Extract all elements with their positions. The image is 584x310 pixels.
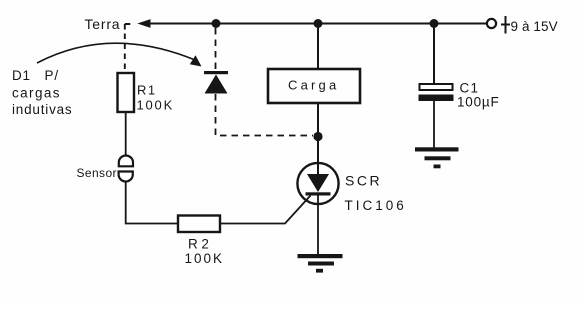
label +9 a 15V: [501, 16, 558, 34]
wire R2 to SCR gate: [220, 196, 311, 224]
svg-text:TIC106: TIC106: [345, 198, 407, 213]
C1 bottom plate: [419, 95, 454, 102]
svg-text:9 à 15V: 9 à 15V: [511, 19, 558, 34]
wire SCR cathode to ground: [317, 195, 319, 255]
svg-text:indutivas: indutivas: [12, 102, 72, 117]
node junction dot D1 branch: [212, 19, 221, 28]
svg-text:Terra: Terra: [85, 16, 121, 32]
label R1 value: [137, 83, 175, 113]
ground under C1: [415, 147, 459, 168]
svg-text:cargas: cargas: [12, 86, 61, 101]
label R2 value: [185, 237, 225, 267]
wire dashed elbow from Terra to R1: [125, 24, 133, 73]
node junction dot C1 branch: [430, 19, 439, 28]
wire C1 to ground: [433, 101, 435, 148]
sensor upper contact: [119, 156, 133, 167]
node junction dot gate net: [313, 132, 322, 141]
arrow to Terra (left end of rail): [137, 19, 150, 28]
C1 top plate: [420, 84, 453, 90]
resistor R2: [178, 216, 220, 233]
SCR cathode bar: [306, 192, 331, 195]
diode D1 cathode bar: [204, 71, 228, 74]
node junction dot Carga branch: [314, 19, 323, 28]
svg-text:100µF: 100µF: [457, 95, 500, 110]
load box Carga: [268, 69, 360, 103]
sensor lower contact: [119, 172, 133, 182]
wire curved callout arrow to D1: [37, 43, 195, 63]
ground under SCR: [298, 254, 343, 273]
svg-text:100K: 100K: [185, 251, 225, 266]
label SCR TIC106: [345, 173, 407, 214]
SCR triangle: [307, 174, 329, 192]
svg-text:R2: R2: [188, 237, 212, 252]
svg-text:D1 P/: D1 P/: [12, 68, 59, 83]
diode D1 triangle: [205, 75, 228, 94]
node terminal +9 a 15V: [487, 19, 496, 28]
wire R1 bottom to sensor: [125, 112, 127, 156]
svg-text:Sensor: Sensor: [77, 166, 117, 180]
svg-text:SCR: SCR: [345, 173, 382, 189]
wire top supply rail: [148, 23, 487, 25]
wire Carga to SCR anode: [317, 103, 319, 175]
wire dashed D1 to gate net: [216, 94, 314, 136]
svg-text:100K: 100K: [137, 98, 175, 113]
svg-text:C1: C1: [460, 81, 480, 96]
label D1 note: [12, 68, 72, 117]
resistor R1: [118, 73, 135, 112]
svg-text:R1: R1: [137, 83, 157, 98]
capacitor C1: [433, 24, 435, 85]
diode D1 dashed anode-cathode branch: [215, 28, 217, 71]
wire rail to Carga: [317, 24, 319, 70]
SCR U1 circle: [297, 163, 338, 204]
label C1 value: [457, 81, 500, 110]
wire sensor to corner: [126, 182, 178, 224]
svg-text:Carga: Carga: [288, 78, 339, 93]
